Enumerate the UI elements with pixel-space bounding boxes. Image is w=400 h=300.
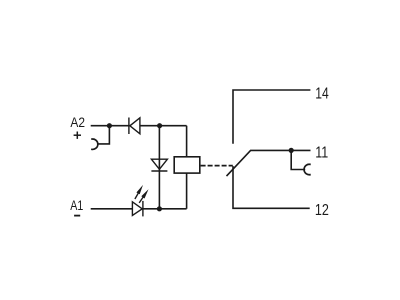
wire drop to socket <box>97 126 109 144</box>
relay coil K1 <box>174 157 200 173</box>
changeover contact arm and wire 11 <box>227 150 311 176</box>
contact 12 wire <box>233 166 310 208</box>
polarity mark + <box>74 132 81 139</box>
wire A2 rail <box>91 125 187 127</box>
junction node at A2 <box>107 123 112 128</box>
polarity mark - <box>74 215 80 217</box>
svg-text:14: 14 <box>315 85 329 102</box>
socket contact A2 <box>91 139 98 149</box>
socket contact 11 <box>304 164 311 174</box>
LED arrow right <box>139 189 148 203</box>
freewheeling diode <box>151 159 167 171</box>
dashed mechanical link <box>201 165 233 167</box>
svg-text:12: 12 <box>315 202 329 219</box>
junction node 11 <box>289 148 294 153</box>
diode D1 reverse-polarity protection <box>129 118 140 135</box>
LED indicator <box>132 201 143 217</box>
LED arrow left <box>135 185 143 199</box>
wire coil bottom lead <box>186 173 188 209</box>
wire freewheel branch <box>158 126 160 209</box>
junction node coil branch top <box>157 123 162 128</box>
svg-text:11: 11 <box>315 144 328 161</box>
wire A1 rail <box>91 208 187 210</box>
contact 14 wire <box>233 90 310 144</box>
wire coil top lead <box>186 126 188 157</box>
wire to socket 11 <box>291 150 305 169</box>
svg-text:A2: A2 <box>70 114 85 130</box>
junction node LED branch <box>157 206 162 211</box>
svg-text:A1: A1 <box>70 197 83 213</box>
